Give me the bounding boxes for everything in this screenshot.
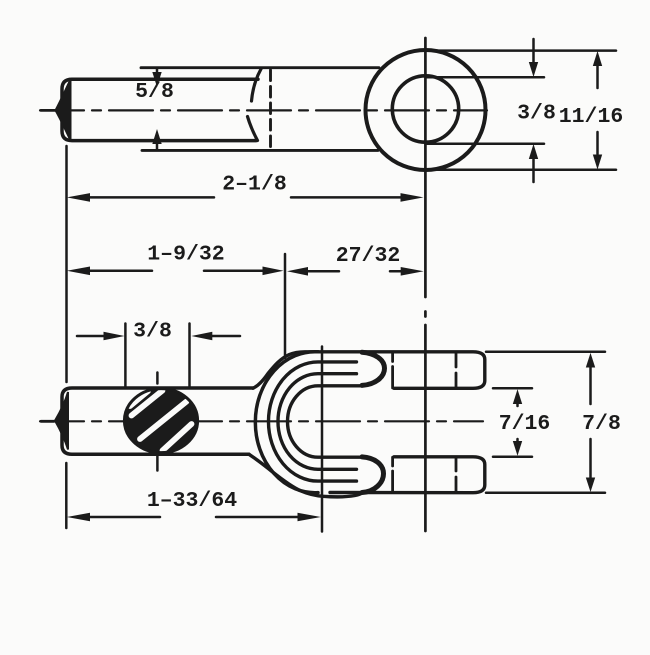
barrel outline (fork terminal): [62, 388, 253, 454]
5/8 dimension arrows: [152, 68, 161, 150]
inner diameter bottom extension: [426, 143, 544, 146]
tine dashed verticals (x=456): [455, 354, 458, 493]
fork center vertical extension (x=322): [321, 347, 324, 532]
rolled tip (bottom tine): [362, 457, 384, 493]
inner diameter top extension: [426, 76, 544, 79]
left extension line (fork figure, x=66): [65, 463, 68, 528]
outer diameter top extension: [425, 49, 616, 52]
7/8 dimension arrows: [586, 353, 595, 492]
3/8 extension lines (fork): [125, 324, 189, 388]
svg-text:27/32: 27/32: [336, 244, 401, 268]
svg-text:5/8: 5/8: [135, 80, 174, 104]
ring vertical center / extension line: [424, 38, 427, 531]
center line stub left (fork): [41, 420, 54, 423]
svg-text:1–9/32: 1–9/32: [147, 243, 224, 267]
7/16 extension stubs: [493, 388, 532, 457]
27/32 dimension line: [287, 267, 424, 276]
wire cross-section hatched circle: [124, 389, 197, 453]
svg-text:7/8: 7/8: [582, 412, 621, 436]
tongue top edge / 5-8 upper extension: [141, 66, 379, 69]
slot arc (innermost): [287, 386, 361, 457]
center line (fork terminal figure): [40, 420, 483, 422]
2-1/8 dimension line: [67, 193, 424, 202]
3/8 dimension arrows (ring): [529, 39, 538, 182]
svg-text:1–33/64: 1–33/64: [147, 489, 237, 513]
3/8 dimension (fork): [77, 332, 240, 341]
fork bottom edge with tine end cap: [330, 457, 485, 493]
crimp cone (ring terminal): [56, 80, 71, 141]
tongue bottom edge / 5-8 lower extension: [142, 149, 378, 152]
flange arc 3: [278, 374, 357, 470]
circle vertical crosshair: [156, 373, 159, 471]
7/8 extension lines: [486, 352, 605, 493]
ring outer circle: [366, 50, 486, 170]
shared extension line (x=285): [284, 254, 287, 358]
svg-text:3/8: 3/8: [517, 102, 556, 126]
svg-text:11/16: 11/16: [559, 105, 624, 129]
center line (ring terminal figure): [40, 109, 487, 111]
center line stub left (ring terminal): [41, 109, 56, 112]
flange arc 2: [268, 362, 356, 481]
outer arc: [255, 352, 318, 493]
11/16 dimension arrows: [593, 51, 602, 170]
7/16 dimension arrows: [513, 389, 522, 456]
svg-text:2–1/8: 2–1/8: [222, 173, 287, 197]
rolled tip (top tine): [362, 352, 385, 385]
crimp hidden dashed line: [269, 70, 272, 149]
svg-text:3/8: 3/8: [133, 320, 172, 344]
scan smudge 1: [148, 563, 592, 570]
outer diameter bottom extension: [425, 169, 616, 172]
crimp cone (fork terminal): [55, 392, 68, 450]
lower crimp lip: [248, 117, 258, 141]
ring inner circle: [392, 76, 458, 142]
1-33/64 dimension line: [67, 513, 321, 522]
scan smudge 2: [188, 603, 268, 609]
upper crimp lip: [252, 69, 262, 101]
1-9/32 dimension line: [67, 267, 284, 276]
tine boundary verticals (x=392.6): [391, 353, 394, 493]
barrel outline (ring terminal): [62, 79, 258, 140]
fork lower flare: [249, 454, 362, 496]
fork upper flare and top edge with tine end cap: [253, 352, 485, 389]
svg-text:7/16: 7/16: [499, 412, 551, 436]
left extension line (upper figure, x=66): [65, 146, 68, 382]
